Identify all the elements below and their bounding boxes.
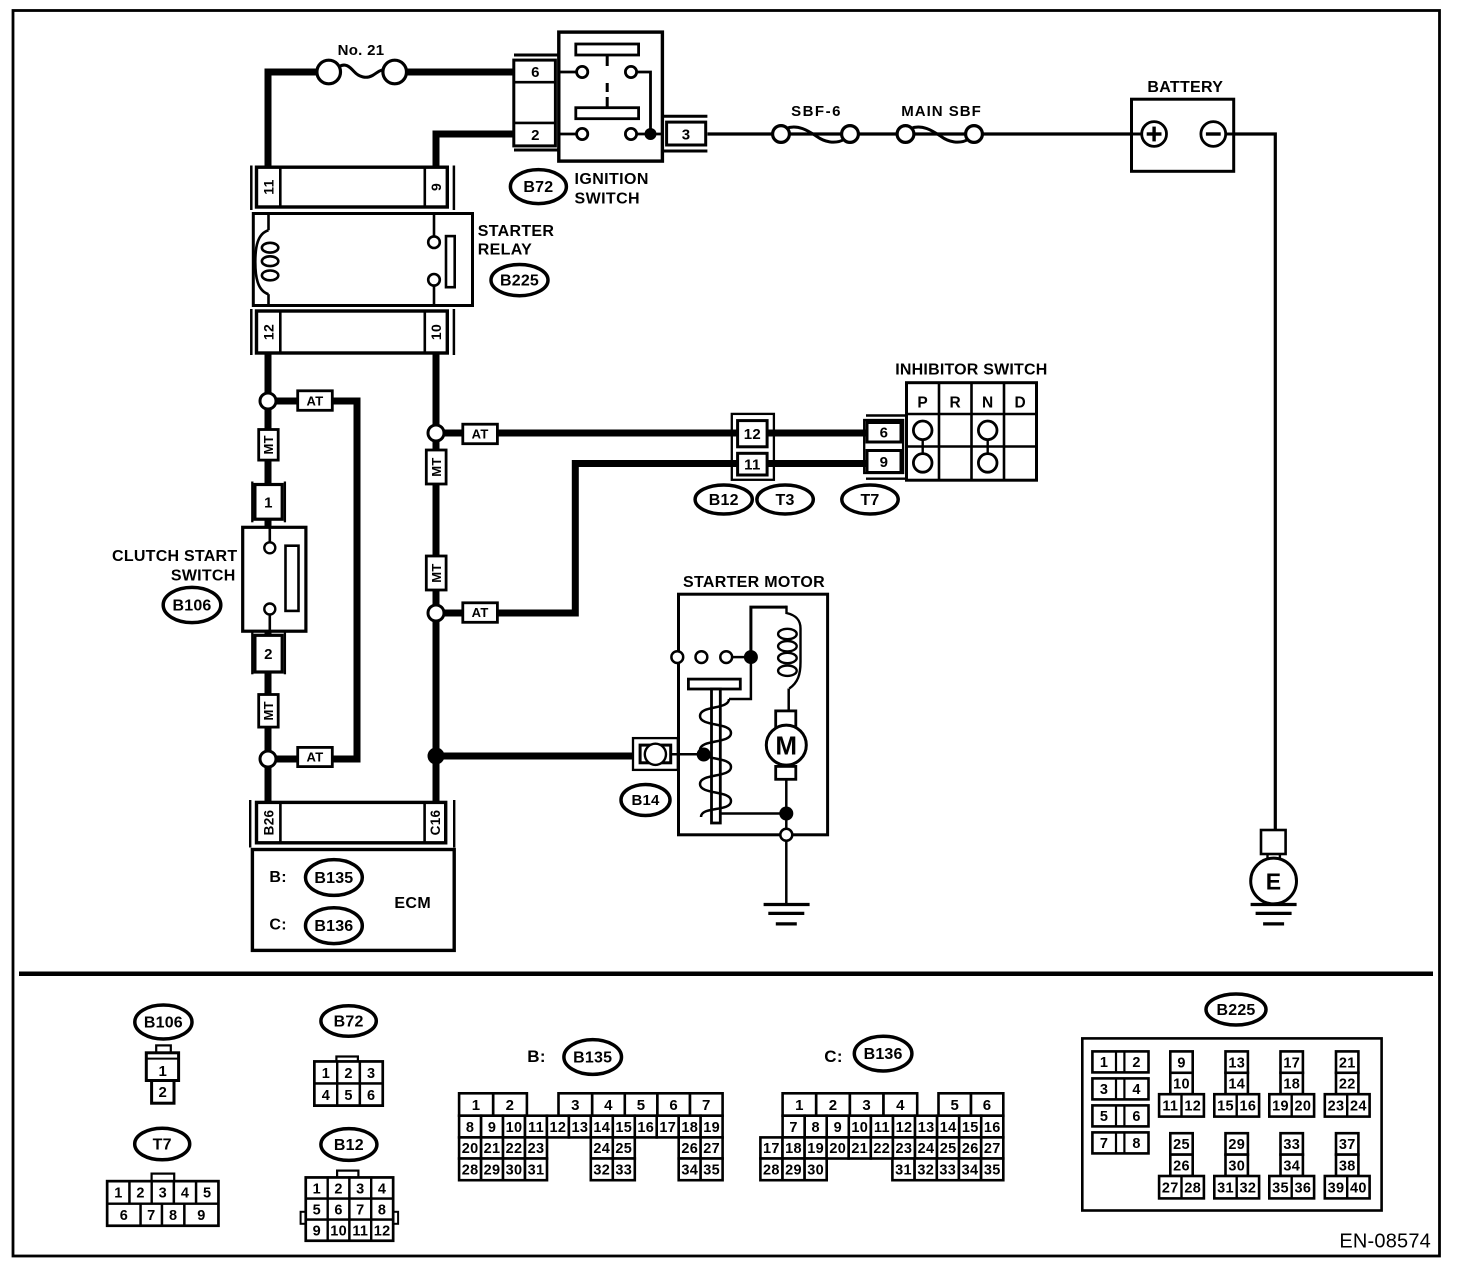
connector detail label B106 oval <box>135 1005 192 1039</box>
svg-text:8: 8 <box>812 1120 820 1136</box>
svg-text:26: 26 <box>681 1141 698 1157</box>
svg-text:28: 28 <box>1184 1180 1201 1196</box>
svg-text:6: 6 <box>1132 1109 1140 1125</box>
svg-text:26: 26 <box>1173 1159 1190 1175</box>
svg-text:4: 4 <box>378 1181 386 1197</box>
svg-text:28: 28 <box>763 1163 780 1179</box>
connector detail B106 <box>156 1045 171 1052</box>
svg-text:13: 13 <box>918 1120 935 1136</box>
starter motor plunger junction dot <box>697 748 711 762</box>
svg-text:32: 32 <box>917 1163 934 1179</box>
clutch switch connector pin 2 <box>251 632 253 674</box>
svg-text:39: 39 <box>1328 1180 1345 1196</box>
svg-text:SWITCH: SWITCH <box>575 190 641 207</box>
svg-text:1: 1 <box>472 1097 481 1114</box>
svg-text:24: 24 <box>1350 1099 1367 1115</box>
svg-text:9: 9 <box>488 1120 496 1136</box>
connector detail B225 cluster 25-28 <box>1170 1133 1192 1154</box>
svg-text:27: 27 <box>984 1141 1001 1157</box>
svg-text:B136: B136 <box>314 918 353 935</box>
svg-text:2: 2 <box>334 1181 342 1197</box>
svg-text:27: 27 <box>1162 1180 1179 1196</box>
inhibitor switch connector flanges <box>866 414 907 416</box>
node A junction <box>260 393 276 409</box>
svg-text:21: 21 <box>851 1141 868 1157</box>
svg-text:AT: AT <box>472 427 489 442</box>
svg-text:10: 10 <box>330 1223 347 1239</box>
svg-text:ECM: ECM <box>394 895 431 912</box>
connector detail B136 grid <box>783 1093 817 1115</box>
svg-text:8: 8 <box>1132 1136 1140 1152</box>
svg-text:25: 25 <box>1173 1137 1190 1153</box>
svg-text:M: M <box>775 731 797 761</box>
starter motor output junction dot <box>785 779 788 835</box>
svg-text:INHIBITOR SWITCH: INHIBITOR SWITCH <box>895 361 1047 378</box>
svg-text:20: 20 <box>829 1141 846 1157</box>
svg-text:34: 34 <box>681 1163 698 1179</box>
svg-text:29: 29 <box>484 1163 501 1179</box>
svg-text:AT: AT <box>472 605 489 620</box>
connector label B225 oval <box>491 265 548 296</box>
starter relay bottom connector pins 12 and 10 <box>250 309 253 355</box>
connector detail label B12 oval <box>321 1129 377 1161</box>
svg-text:30: 30 <box>506 1163 523 1179</box>
connector detail B225 cluster 13-16 <box>1226 1051 1248 1072</box>
inhibitor switch connector pins 6 and 9 <box>864 420 903 473</box>
svg-text:1: 1 <box>322 1066 330 1082</box>
connector detail label B225 oval <box>1206 994 1266 1025</box>
connector detail B225 <box>1082 1038 1381 1210</box>
svg-text:MT: MT <box>261 435 276 454</box>
fuse MAIN SBF <box>897 126 914 143</box>
starter motor plunger spring <box>700 699 731 817</box>
svg-text:MAIN SBF: MAIN SBF <box>901 103 982 120</box>
svg-text:31: 31 <box>1217 1180 1234 1196</box>
wire left main line node A through clutch switch to ECM B26 <box>265 401 272 802</box>
svg-text:6: 6 <box>120 1208 128 1224</box>
ignition switch internal wire to pin 3 <box>637 72 651 134</box>
svg-text:MT: MT <box>429 563 444 582</box>
svg-text:B106: B106 <box>172 597 211 614</box>
svg-text:20: 20 <box>462 1141 479 1157</box>
ignition switch bottom contact bar <box>576 108 639 119</box>
svg-text:21: 21 <box>484 1141 501 1157</box>
svg-text:AT: AT <box>307 393 324 408</box>
connector detail T7 <box>152 1174 175 1182</box>
svg-text:24: 24 <box>918 1141 935 1157</box>
svg-text:34: 34 <box>962 1163 979 1179</box>
svg-text:T3: T3 <box>776 492 795 509</box>
connector detail B225 cluster 21-24 <box>1336 1051 1358 1072</box>
svg-text:35: 35 <box>984 1163 1001 1179</box>
svg-text:3: 3 <box>571 1097 580 1114</box>
svg-text:6: 6 <box>334 1202 342 1218</box>
svg-text:16: 16 <box>637 1120 654 1136</box>
svg-text:SWITCH: SWITCH <box>171 567 236 584</box>
svg-text:9: 9 <box>880 454 889 471</box>
connector detail B225 cluster 17-20 <box>1281 1051 1303 1072</box>
connector label T7 oval <box>842 485 898 514</box>
node E junction dot <box>428 748 445 765</box>
svg-text:34: 34 <box>1283 1159 1300 1175</box>
svg-text:12: 12 <box>261 324 277 340</box>
wire AT bypass branch node A to node B <box>268 401 357 759</box>
svg-text:12: 12 <box>550 1120 567 1136</box>
connector label T3 oval <box>757 485 813 514</box>
svg-text:1: 1 <box>158 1063 167 1080</box>
starter motor solenoid coil <box>751 607 787 652</box>
svg-text:30: 30 <box>807 1163 824 1179</box>
svg-text:14: 14 <box>593 1120 610 1136</box>
starter motor plunger <box>688 679 740 689</box>
wire fuse No.21 feed from junction to ignition switch pin 6 <box>268 72 317 167</box>
svg-text:25: 25 <box>615 1141 632 1157</box>
svg-text:B:: B: <box>527 1047 546 1066</box>
MT box upper on middle line <box>426 450 446 484</box>
wire node C to inhibitor switch pin 6 <box>436 430 868 437</box>
connector detail B135 grid <box>459 1093 493 1115</box>
svg-text:B12: B12 <box>334 1137 364 1154</box>
svg-text:1: 1 <box>114 1186 122 1202</box>
svg-text:SBF-6: SBF-6 <box>791 103 842 120</box>
svg-text:7: 7 <box>147 1208 155 1224</box>
AT box on node A branch <box>298 391 333 411</box>
inhibitor switch N column contacts <box>987 440 989 454</box>
svg-text:26: 26 <box>962 1141 979 1157</box>
svg-text:40: 40 <box>1350 1180 1367 1196</box>
svg-text:33: 33 <box>615 1163 632 1179</box>
svg-text:E: E <box>1266 868 1282 894</box>
connector detail label B72 oval <box>321 1006 376 1037</box>
MT box below clutch connector 2 <box>259 695 279 728</box>
svg-text:31: 31 <box>528 1163 545 1179</box>
svg-text:P: P <box>917 395 928 412</box>
svg-text:12: 12 <box>896 1120 913 1136</box>
svg-text:29: 29 <box>785 1163 802 1179</box>
svg-text:AT: AT <box>307 750 324 765</box>
node C junction <box>428 425 444 441</box>
wire node D to inhibitor switch pin 9 <box>436 464 868 614</box>
connector label B72 oval <box>510 170 566 204</box>
svg-text:3: 3 <box>367 1066 375 1082</box>
svg-text:19: 19 <box>807 1141 824 1157</box>
svg-text:B106: B106 <box>144 1014 183 1031</box>
svg-text:8: 8 <box>169 1208 177 1224</box>
svg-text:C:: C: <box>824 1047 843 1066</box>
starter relay contact bar <box>446 236 455 287</box>
wire ignition pin 3 to battery positive <box>707 132 1131 135</box>
svg-text:T7: T7 <box>153 1136 172 1153</box>
svg-text:11: 11 <box>261 179 277 194</box>
svg-text:18: 18 <box>1283 1077 1300 1093</box>
svg-text:28: 28 <box>462 1163 479 1179</box>
svg-text:22: 22 <box>1339 1077 1356 1093</box>
connector T3/B12 pins 12 and 11 <box>732 414 774 480</box>
svg-text:2: 2 <box>136 1186 144 1202</box>
svg-text:16: 16 <box>984 1120 1001 1136</box>
svg-text:24: 24 <box>593 1141 610 1157</box>
svg-text:B72: B72 <box>523 179 553 196</box>
ECM connector B26/C16 <box>249 800 251 848</box>
connector label B106 oval <box>163 587 221 622</box>
wire battery negative to ground E <box>1234 134 1276 830</box>
AT box on node C branch <box>463 424 498 444</box>
svg-text:22: 22 <box>873 1141 890 1157</box>
svg-text:31: 31 <box>895 1163 912 1179</box>
svg-text:11: 11 <box>1162 1099 1178 1115</box>
connector detail B225 cluster 33-36 <box>1281 1133 1303 1154</box>
svg-text:6: 6 <box>880 424 889 441</box>
ground E symbol <box>1251 858 1297 904</box>
svg-text:6: 6 <box>367 1088 375 1104</box>
svg-text:BATTERY: BATTERY <box>1147 79 1223 96</box>
connector label B14 oval <box>621 785 670 816</box>
ignition switch top contact bar <box>576 44 639 55</box>
starter motor solenoid contact stem <box>729 657 751 699</box>
svg-text:N: N <box>982 395 993 412</box>
motor M symbol <box>776 711 796 728</box>
AT box on node B branch <box>298 747 333 766</box>
node D junction <box>428 605 444 621</box>
svg-text:6: 6 <box>531 64 540 81</box>
wire node E to starter motor connector B14 <box>436 753 637 760</box>
svg-text:23: 23 <box>896 1141 913 1157</box>
svg-text:7: 7 <box>1100 1136 1108 1152</box>
svg-text:35: 35 <box>703 1163 720 1179</box>
svg-text:18: 18 <box>681 1120 698 1136</box>
svg-text:11: 11 <box>352 1223 368 1239</box>
svg-text:5: 5 <box>313 1202 321 1218</box>
starter relay body <box>253 214 472 306</box>
battery positive terminal <box>1132 133 1143 136</box>
svg-text:10: 10 <box>428 324 444 340</box>
svg-text:15: 15 <box>615 1120 632 1136</box>
svg-text:C:: C: <box>269 917 287 934</box>
svg-text:9: 9 <box>1177 1055 1185 1071</box>
svg-text:3: 3 <box>682 126 691 143</box>
svg-text:CLUTCH START: CLUTCH START <box>112 548 237 565</box>
svg-text:6: 6 <box>669 1097 678 1114</box>
svg-text:36: 36 <box>1295 1180 1312 1196</box>
svg-text:19: 19 <box>703 1120 720 1136</box>
svg-text:20: 20 <box>1295 1099 1312 1115</box>
svg-text:16: 16 <box>1240 1099 1257 1115</box>
node B junction <box>260 751 276 767</box>
svg-text:3: 3 <box>862 1097 871 1114</box>
svg-text:STARTER: STARTER <box>478 223 555 240</box>
svg-text:29: 29 <box>1228 1137 1245 1153</box>
svg-text:B26: B26 <box>261 809 276 835</box>
inhibitor switch P column contacts <box>922 440 924 454</box>
svg-text:5: 5 <box>203 1186 211 1202</box>
starter motor body <box>679 594 828 835</box>
ground connector box <box>1261 830 1286 854</box>
svg-text:4: 4 <box>322 1088 330 1104</box>
clutch start switch <box>243 527 306 631</box>
svg-text:32: 32 <box>1240 1180 1257 1196</box>
svg-text:38: 38 <box>1339 1159 1356 1175</box>
svg-text:5: 5 <box>1100 1109 1108 1125</box>
clutch switch connector pin 1 <box>251 482 253 523</box>
svg-text:RELAY: RELAY <box>478 242 532 259</box>
svg-text:14: 14 <box>1228 1077 1245 1093</box>
svg-text:23: 23 <box>528 1141 545 1157</box>
svg-text:32: 32 <box>593 1163 610 1179</box>
starter motor case ground node <box>780 829 792 841</box>
battery <box>1132 99 1234 171</box>
svg-text:IGNITION: IGNITION <box>575 171 649 188</box>
svg-text:5: 5 <box>950 1097 959 1114</box>
ignition switch junction dot <box>645 128 657 140</box>
ignition switch connector B72 flanges <box>514 54 559 57</box>
svg-text:C16: C16 <box>428 809 443 835</box>
starter relay coil <box>267 214 270 231</box>
fuse SBF-6 <box>773 126 790 143</box>
svg-text:8: 8 <box>466 1120 474 1136</box>
svg-text:17: 17 <box>763 1141 780 1157</box>
fuse No. 21 <box>317 60 341 84</box>
svg-text:21: 21 <box>1339 1055 1356 1071</box>
svg-text:6: 6 <box>983 1097 992 1114</box>
MT box above clutch connector 1 <box>259 430 279 461</box>
svg-text:33: 33 <box>939 1163 956 1179</box>
svg-text:1: 1 <box>313 1181 321 1197</box>
svg-text:15: 15 <box>1217 1099 1234 1115</box>
svg-text:23: 23 <box>1328 1099 1345 1115</box>
svg-text:MT: MT <box>261 701 276 720</box>
AT box on node D branch <box>463 603 498 623</box>
wire middle main line relay pin 10 to ECM C16 <box>433 353 440 802</box>
svg-text:4: 4 <box>181 1186 189 1202</box>
svg-text:17: 17 <box>659 1120 676 1136</box>
ignition switch connector B72 pins 6 and 2 <box>514 60 556 146</box>
connector detail B72 <box>336 1057 358 1063</box>
connector detail B12 <box>337 1171 358 1178</box>
connector label B12 oval <box>695 485 752 514</box>
svg-text:7: 7 <box>356 1202 364 1218</box>
starter relay top connector pins 11 and 9 <box>250 166 253 211</box>
svg-text:4: 4 <box>604 1097 613 1114</box>
wire ignition pin 2 to starter relay pin 9 <box>436 134 514 167</box>
svg-text:11: 11 <box>744 456 760 473</box>
svg-text:9: 9 <box>313 1223 321 1239</box>
svg-text:2: 2 <box>506 1097 515 1114</box>
svg-text:11: 11 <box>528 1120 544 1136</box>
connector detail B225 cluster 29-32 <box>1226 1133 1248 1154</box>
connector B14 <box>633 738 678 770</box>
svg-text:9: 9 <box>197 1208 205 1224</box>
svg-text:D: D <box>1014 395 1025 412</box>
svg-text:19: 19 <box>1272 1099 1289 1115</box>
svg-text:10: 10 <box>506 1120 523 1136</box>
svg-text:2: 2 <box>264 646 273 663</box>
svg-text:17: 17 <box>1283 1055 1300 1071</box>
svg-text:B136: B136 <box>864 1046 903 1063</box>
svg-text:9: 9 <box>428 183 444 191</box>
wire starter relay pin 12 down to node A <box>265 353 272 405</box>
svg-text:8: 8 <box>378 1202 386 1218</box>
svg-text:B135: B135 <box>314 870 353 887</box>
svg-text:T7: T7 <box>860 492 879 509</box>
svg-text:No. 21: No. 21 <box>338 42 385 59</box>
svg-text:30: 30 <box>1228 1159 1245 1175</box>
separator line <box>19 972 1433 977</box>
svg-text:B14: B14 <box>631 792 660 809</box>
svg-text:B135: B135 <box>573 1049 612 1066</box>
svg-text:10: 10 <box>1173 1077 1190 1093</box>
svg-text:B225: B225 <box>1216 1002 1255 1019</box>
ignition switch connector pin 3 <box>662 115 707 118</box>
svg-text:B:: B: <box>269 869 287 886</box>
svg-text:37: 37 <box>1339 1137 1356 1153</box>
starter motor solenoid contacts <box>671 651 683 663</box>
svg-text:10: 10 <box>851 1120 868 1136</box>
svg-text:3: 3 <box>356 1181 364 1197</box>
svg-text:4: 4 <box>896 1097 905 1114</box>
svg-text:7: 7 <box>702 1097 711 1114</box>
svg-text:18: 18 <box>785 1141 802 1157</box>
starter relay contact <box>433 214 436 237</box>
svg-text:2: 2 <box>829 1097 838 1114</box>
svg-text:5: 5 <box>344 1088 352 1104</box>
svg-text:11: 11 <box>874 1120 890 1136</box>
connector detail B225 cluster 37-40 <box>1336 1133 1358 1154</box>
connector detail label T7 oval <box>135 1128 190 1160</box>
ECM box <box>252 850 454 951</box>
svg-text:15: 15 <box>962 1120 979 1136</box>
inhibitor switch grid <box>907 383 1037 481</box>
ignition switch rotor dashed link <box>606 55 609 108</box>
svg-text:35: 35 <box>1272 1180 1289 1196</box>
svg-text:5: 5 <box>637 1097 646 1114</box>
svg-text:1: 1 <box>264 494 273 511</box>
starter motor ground symbol <box>785 841 788 904</box>
starter motor M winding lead <box>720 812 786 815</box>
svg-text:13: 13 <box>572 1120 589 1136</box>
svg-text:14: 14 <box>940 1120 957 1136</box>
ignition switch contact circles <box>559 71 577 74</box>
ignition switch body <box>559 32 663 161</box>
svg-text:B225: B225 <box>500 272 539 289</box>
svg-text:25: 25 <box>940 1141 957 1157</box>
starter motor solenoid junction dot <box>744 650 758 664</box>
svg-text:1: 1 <box>1100 1055 1108 1071</box>
svg-text:12: 12 <box>374 1223 391 1239</box>
svg-text:2: 2 <box>1132 1055 1140 1071</box>
svg-text:2: 2 <box>158 1084 167 1101</box>
svg-text:2: 2 <box>531 127 540 144</box>
svg-text:12: 12 <box>1184 1099 1201 1115</box>
svg-text:B12: B12 <box>709 492 739 509</box>
svg-text:B72: B72 <box>334 1013 364 1030</box>
svg-text:13: 13 <box>1228 1055 1245 1071</box>
svg-text:9: 9 <box>834 1120 842 1136</box>
svg-text:MT: MT <box>429 457 444 476</box>
clutch start switch contact bar <box>286 546 299 611</box>
svg-text:27: 27 <box>703 1141 720 1157</box>
svg-text:3: 3 <box>159 1186 167 1202</box>
MT box lower on middle line <box>426 556 446 590</box>
svg-text:4: 4 <box>1132 1082 1140 1098</box>
svg-text:3: 3 <box>1100 1082 1108 1098</box>
svg-text:7: 7 <box>789 1120 797 1136</box>
svg-text:EN-08574: EN-08574 <box>1339 1231 1431 1253</box>
svg-text:1: 1 <box>795 1097 804 1114</box>
svg-text:STARTER MOTOR: STARTER MOTOR <box>683 574 825 591</box>
svg-text:33: 33 <box>1283 1137 1300 1153</box>
svg-text:22: 22 <box>506 1141 523 1157</box>
battery negative terminal <box>1201 122 1226 147</box>
